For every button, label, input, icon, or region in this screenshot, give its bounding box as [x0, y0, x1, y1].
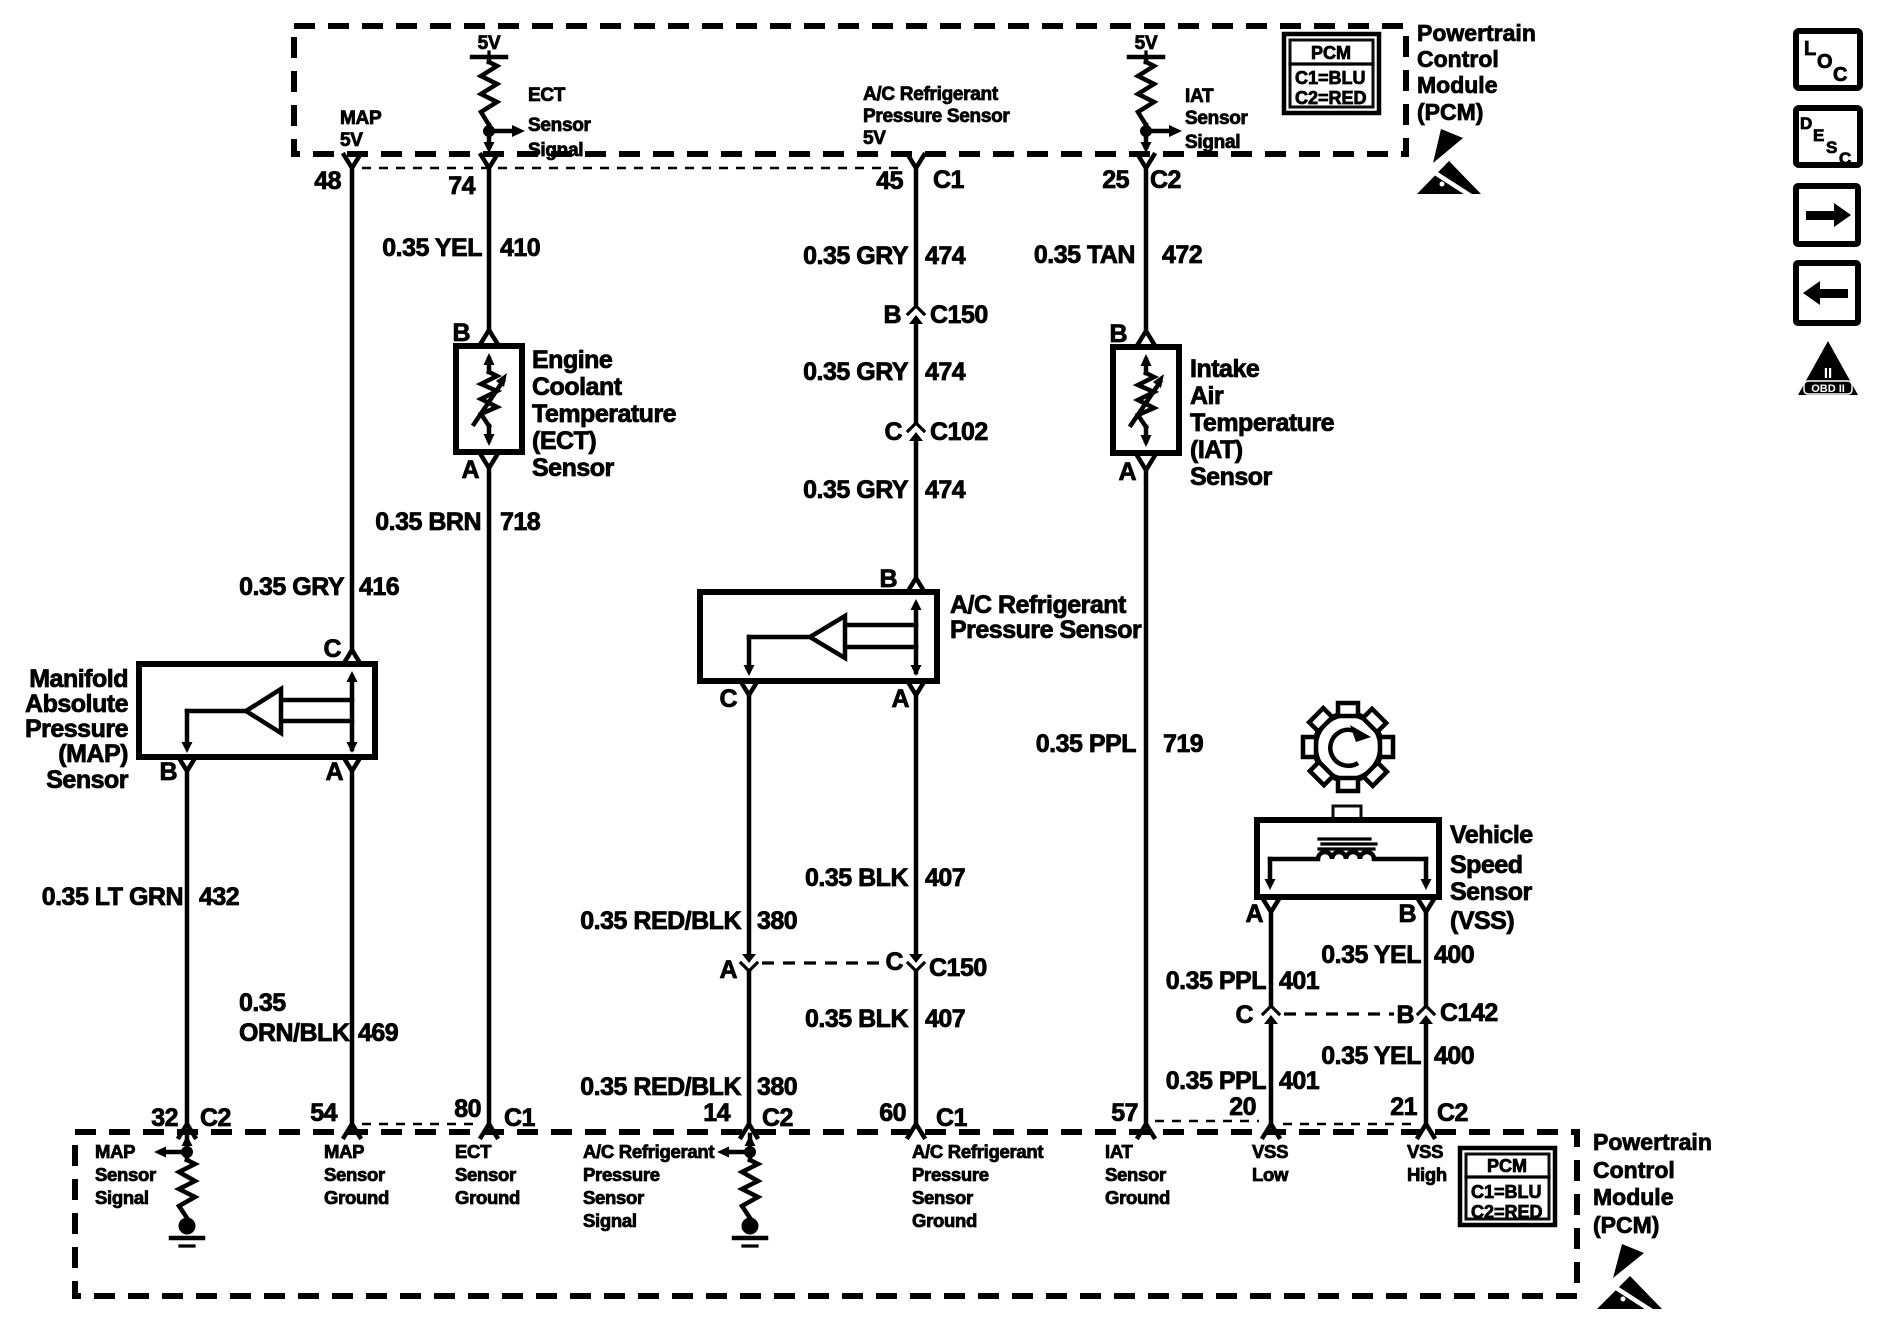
PCM module bottom dashed outline	[75, 1132, 1577, 1296]
svg-text:Sensor: Sensor	[1450, 878, 1533, 906]
svg-text:Absolute: Absolute	[25, 690, 129, 718]
svg-text:Signal: Signal	[528, 140, 583, 161]
svg-text:(VSS): (VSS)	[1450, 907, 1514, 935]
svg-text:0.35 YEL: 0.35 YEL	[1321, 1042, 1421, 1070]
svg-text:(MAP): (MAP)	[58, 740, 128, 768]
svg-text:Control: Control	[1417, 46, 1499, 72]
svg-text:401: 401	[1279, 967, 1320, 995]
svg-text:MAP: MAP	[95, 1141, 135, 1162]
svg-text:0.35 RED/BLK: 0.35 RED/BLK	[580, 1073, 741, 1101]
resistor MAP signal termination with ground	[182, 1135, 193, 1146]
svg-text:C2: C2	[1437, 1099, 1468, 1127]
svg-text:C: C	[1833, 64, 1847, 86]
wire VSS high seg 2 (C142 to pin 21)	[1424, 1024, 1429, 1124]
svg-text:474: 474	[925, 242, 966, 270]
svg-text:C142: C142	[1440, 999, 1498, 1027]
svg-text:54: 54	[310, 1099, 337, 1127]
svg-text:C1: C1	[504, 1104, 536, 1132]
svg-text:Ground: Ground	[912, 1210, 977, 1231]
svg-text:407: 407	[925, 864, 965, 892]
A/C refrigerant pressure sensor box	[700, 592, 937, 681]
svg-text:469: 469	[358, 1019, 398, 1047]
svg-text:C: C	[323, 635, 341, 663]
svg-text:PCM: PCM	[1487, 1156, 1527, 1176]
svg-text:410: 410	[500, 234, 540, 262]
PCM module top dashed outline	[294, 26, 1406, 154]
svg-text:MAP: MAP	[324, 1141, 364, 1162]
connector C142 dashed link	[1284, 1012, 1394, 1015]
svg-text:C: C	[885, 948, 903, 976]
svg-text:Ground: Ground	[455, 1187, 520, 1208]
svg-text:PCM: PCM	[1311, 43, 1351, 63]
wire A/C 5V segment 2 (C150 to C102)	[914, 324, 919, 423]
svg-text:Manifold: Manifold	[29, 665, 128, 693]
ESD sensitivity symbol bottom	[1613, 1244, 1644, 1278]
svg-text:474: 474	[925, 358, 966, 386]
svg-text:0.35 LT GRN: 0.35 LT GRN	[42, 883, 183, 911]
svg-text:80: 80	[454, 1095, 481, 1123]
svg-text:C2=RED: C2=RED	[1295, 88, 1367, 108]
svg-text:0.35 YEL: 0.35 YEL	[382, 234, 482, 262]
svg-text:20: 20	[1229, 1093, 1256, 1121]
svg-text:S: S	[1826, 138, 1837, 157]
wire A/C ground segment 2 (C150 to pin 60)	[914, 971, 919, 1124]
svg-text:Pressure: Pressure	[25, 715, 129, 743]
thin inline-connector dashed line top (pins 48-74-45)	[362, 167, 905, 170]
svg-text:0.35 YEL: 0.35 YEL	[1321, 941, 1421, 969]
svg-text:ECT: ECT	[455, 1141, 492, 1162]
thermistor IAT sensor	[1113, 347, 1179, 453]
svg-text:B: B	[1396, 1001, 1414, 1029]
svg-text:B: B	[1109, 320, 1127, 348]
wire A/C signal segment 2 (C150 to pin 14)	[747, 971, 752, 1124]
svg-text:C150: C150	[930, 301, 988, 329]
icon DESC box	[1796, 108, 1860, 165]
wire A/C 5V segment 3 (C102 to sensor B)	[914, 441, 919, 578]
PCM connector legend box (bottom)	[1460, 1148, 1555, 1225]
svg-text:A: A	[891, 685, 909, 713]
svg-text:380: 380	[757, 907, 797, 935]
svg-text:0.35 GRY: 0.35 GRY	[239, 573, 345, 601]
wire MAP 5V (pin 48 to MAP sensor C)	[350, 168, 355, 650]
svg-text:Signal: Signal	[1185, 132, 1240, 153]
svg-text:Sensor: Sensor	[583, 1187, 644, 1208]
svg-text:25: 25	[1102, 166, 1129, 194]
wire VSS high seg 1 (B to C142)	[1424, 912, 1429, 1006]
svg-text:C: C	[884, 418, 902, 446]
PCM connector legend box (top)	[1284, 34, 1379, 113]
svg-text:ORN/BLK: ORN/BLK	[239, 1019, 350, 1047]
svg-text:Sensor: Sensor	[1105, 1164, 1166, 1185]
svg-text:400: 400	[1434, 941, 1474, 969]
svg-text:A: A	[1245, 900, 1263, 928]
thin inline-connector dashed line bottom (57-20-21)	[1155, 1120, 1259, 1123]
svg-text:32: 32	[151, 1104, 178, 1132]
svg-text:Ground: Ground	[324, 1187, 389, 1208]
icon OBD II triangle	[1798, 341, 1858, 395]
svg-text:A/C Refrigerant: A/C Refrigerant	[863, 84, 999, 105]
svg-text:Sensor: Sensor	[1185, 108, 1249, 129]
wire IAT signal (pin 25 to IAT B)	[1144, 168, 1149, 331]
svg-text:Sensor: Sensor	[455, 1164, 516, 1185]
svg-text:0.35 PPL: 0.35 PPL	[1166, 967, 1266, 995]
svg-text:Air: Air	[1190, 382, 1224, 410]
svg-text:IAT: IAT	[1105, 1141, 1134, 1162]
wire VSS low seg 2 (C142 to pin 20)	[1269, 1024, 1274, 1124]
svg-text:0.35 RED/BLK: 0.35 RED/BLK	[580, 907, 741, 935]
svg-text:5V: 5V	[863, 128, 886, 149]
svg-text:OBD II: OBD II	[1811, 383, 1845, 395]
svg-text:IAT: IAT	[1185, 86, 1214, 107]
svg-text:(PCM): (PCM)	[1593, 1212, 1659, 1238]
svg-text:Pressure Sensor: Pressure Sensor	[950, 616, 1142, 644]
svg-text:E: E	[1813, 126, 1824, 145]
wire A/C signal segment 1 (C to C150-A)	[747, 695, 752, 953]
thin inline-connector dashed line bottom (54-80)	[362, 1123, 478, 1126]
svg-text:B: B	[883, 301, 901, 329]
A/C pressure sensor internal buffer symbol	[911, 599, 922, 610]
icon LOC box	[1796, 31, 1860, 88]
wire IAT ground (A to pin 57)	[1144, 470, 1149, 1124]
svg-text:C1: C1	[936, 1104, 968, 1132]
svg-text:Module: Module	[1417, 72, 1498, 98]
svg-text:B: B	[159, 758, 177, 786]
svg-text:Pressure: Pressure	[583, 1164, 660, 1185]
VSS reluctor gear icon	[1285, 684, 1411, 810]
wire MAP signal (B to pin 32)	[185, 771, 190, 1124]
icon forward arrow box	[1796, 186, 1858, 244]
wire ECT signal upper (pin 74 to ECT B)	[487, 168, 492, 330]
svg-text:D: D	[1800, 114, 1812, 133]
svg-text:0.35 BLK: 0.35 BLK	[805, 1005, 908, 1033]
svg-text:Ground: Ground	[1105, 1187, 1170, 1208]
wire VSS low seg 1 (A to C142)	[1269, 912, 1274, 1006]
svg-text:719: 719	[1163, 730, 1203, 758]
svg-text:A: A	[1118, 458, 1136, 486]
thermistor ECT sensor	[456, 346, 522, 452]
ESD sensitivity symbol top	[1433, 129, 1463, 163]
svg-text:A/C Refrigerant: A/C Refrigerant	[583, 1141, 714, 1162]
svg-text:0.35 GRY: 0.35 GRY	[803, 476, 909, 504]
svg-text:74: 74	[448, 172, 475, 200]
svg-text:Signal: Signal	[95, 1187, 149, 1208]
svg-text:Speed: Speed	[1450, 851, 1523, 879]
svg-text:45: 45	[876, 167, 903, 195]
svg-text:Pressure: Pressure	[912, 1164, 989, 1185]
svg-text:Vehicle: Vehicle	[1450, 821, 1533, 849]
svg-text:B: B	[452, 319, 470, 347]
svg-text:VSS: VSS	[1252, 1141, 1288, 1162]
svg-text:C: C	[719, 685, 737, 713]
svg-text:Signal: Signal	[583, 1210, 637, 1231]
svg-text:C2: C2	[200, 1104, 231, 1132]
svg-text:432: 432	[199, 883, 239, 911]
svg-text:0.35 BLK: 0.35 BLK	[805, 864, 908, 892]
svg-text:B: B	[879, 565, 897, 593]
MAP sensor box	[139, 664, 375, 757]
svg-text:0.35 PPL: 0.35 PPL	[1166, 1067, 1266, 1095]
svg-text:MAP: MAP	[340, 108, 382, 129]
svg-text:Powertrain: Powertrain	[1593, 1129, 1712, 1155]
svg-text:407: 407	[925, 1005, 965, 1033]
svg-text:Sensor: Sensor	[1190, 463, 1273, 491]
icon back arrow box	[1796, 263, 1858, 323]
svg-text:48: 48	[314, 167, 341, 195]
svg-text:A: A	[461, 456, 479, 484]
svg-text:21: 21	[1390, 1093, 1417, 1121]
svg-text:Sensor: Sensor	[532, 454, 615, 482]
svg-text:Sensor: Sensor	[46, 766, 129, 794]
connector C150 dashed link	[762, 961, 888, 964]
svg-text:C1=BLU: C1=BLU	[1295, 68, 1366, 88]
svg-text:A: A	[325, 758, 343, 786]
svg-text:472: 472	[1162, 241, 1202, 269]
svg-text:C150: C150	[929, 954, 987, 982]
wire MAP ground (A to pin 54)	[350, 771, 355, 1124]
svg-text:Engine: Engine	[532, 346, 613, 374]
svg-text:Module: Module	[1593, 1184, 1674, 1210]
svg-text:474: 474	[925, 476, 966, 504]
wire A/C ground segment 1 (A to C150-C)	[914, 695, 919, 953]
svg-text:A/C Refrigerant: A/C Refrigerant	[950, 591, 1127, 619]
svg-text:Sensor: Sensor	[324, 1164, 385, 1185]
svg-text:14: 14	[703, 1099, 730, 1127]
svg-text:A: A	[719, 956, 737, 984]
svg-text:Temperature: Temperature	[1190, 409, 1335, 437]
vehicle speed sensor box	[1257, 820, 1439, 897]
svg-text:60: 60	[879, 1099, 906, 1127]
MAP sensor internal buffer symbol	[347, 671, 358, 682]
svg-text:380: 380	[757, 1073, 797, 1101]
svg-text:400: 400	[1434, 1042, 1474, 1070]
svg-text:Intake: Intake	[1190, 355, 1260, 383]
svg-text:0.35 TAN: 0.35 TAN	[1034, 241, 1135, 269]
svg-text:0.35 GRY: 0.35 GRY	[803, 358, 909, 386]
svg-text:II: II	[1824, 365, 1832, 382]
svg-text:0.35 GRY: 0.35 GRY	[803, 242, 909, 270]
svg-text:Low: Low	[1252, 1164, 1289, 1185]
svg-text:O: O	[1817, 51, 1833, 73]
svg-text:C2: C2	[762, 1104, 793, 1132]
svg-text:Sensor: Sensor	[95, 1164, 156, 1185]
svg-text:(PCM): (PCM)	[1417, 99, 1483, 125]
svg-text:57: 57	[1111, 1099, 1138, 1127]
svg-text:Sensor: Sensor	[912, 1187, 973, 1208]
VSS stem	[1333, 806, 1361, 820]
svg-text:A/C Refrigerant: A/C Refrigerant	[912, 1141, 1043, 1162]
wire ECT ground (A to pin 80)	[487, 468, 492, 1124]
svg-text:VSS: VSS	[1407, 1141, 1443, 1162]
svg-text:C: C	[1235, 1001, 1253, 1029]
svg-text:416: 416	[359, 573, 399, 601]
svg-text:C: C	[1839, 149, 1851, 168]
svg-text:718: 718	[500, 508, 541, 536]
svg-text:C102: C102	[930, 418, 988, 446]
svg-text:Powertrain: Powertrain	[1417, 20, 1536, 46]
svg-text:C2: C2	[1150, 166, 1181, 194]
svg-text:0.35 BRN: 0.35 BRN	[375, 508, 481, 536]
svg-text:B: B	[1398, 900, 1416, 928]
VSS internal pickup coil	[1319, 837, 1370, 840]
svg-text:0.35: 0.35	[239, 989, 286, 1017]
svg-text:Control: Control	[1593, 1157, 1675, 1183]
svg-text:Coolant: Coolant	[532, 373, 623, 401]
svg-text:L: L	[1804, 38, 1816, 60]
svg-text:High: High	[1407, 1164, 1447, 1185]
svg-text:0.35 PPL: 0.35 PPL	[1036, 730, 1136, 758]
svg-text:C1: C1	[933, 166, 965, 194]
wire A/C 5V segment 1 (pin 45 to C150)	[914, 168, 919, 306]
svg-text:C1=BLU: C1=BLU	[1471, 1182, 1542, 1202]
svg-text:Sensor: Sensor	[528, 115, 592, 136]
svg-text:(IAT): (IAT)	[1190, 436, 1243, 464]
svg-text:Temperature: Temperature	[532, 400, 677, 428]
svg-text:5V: 5V	[340, 130, 363, 151]
svg-text:C2=RED: C2=RED	[1471, 1202, 1543, 1222]
svg-text:(ECT): (ECT)	[532, 427, 596, 455]
svg-text:Pressure Sensor: Pressure Sensor	[863, 106, 1010, 127]
svg-text:ECT: ECT	[528, 85, 566, 106]
svg-text:401: 401	[1279, 1067, 1320, 1095]
resistor A/C signal termination with ground	[745, 1135, 756, 1146]
